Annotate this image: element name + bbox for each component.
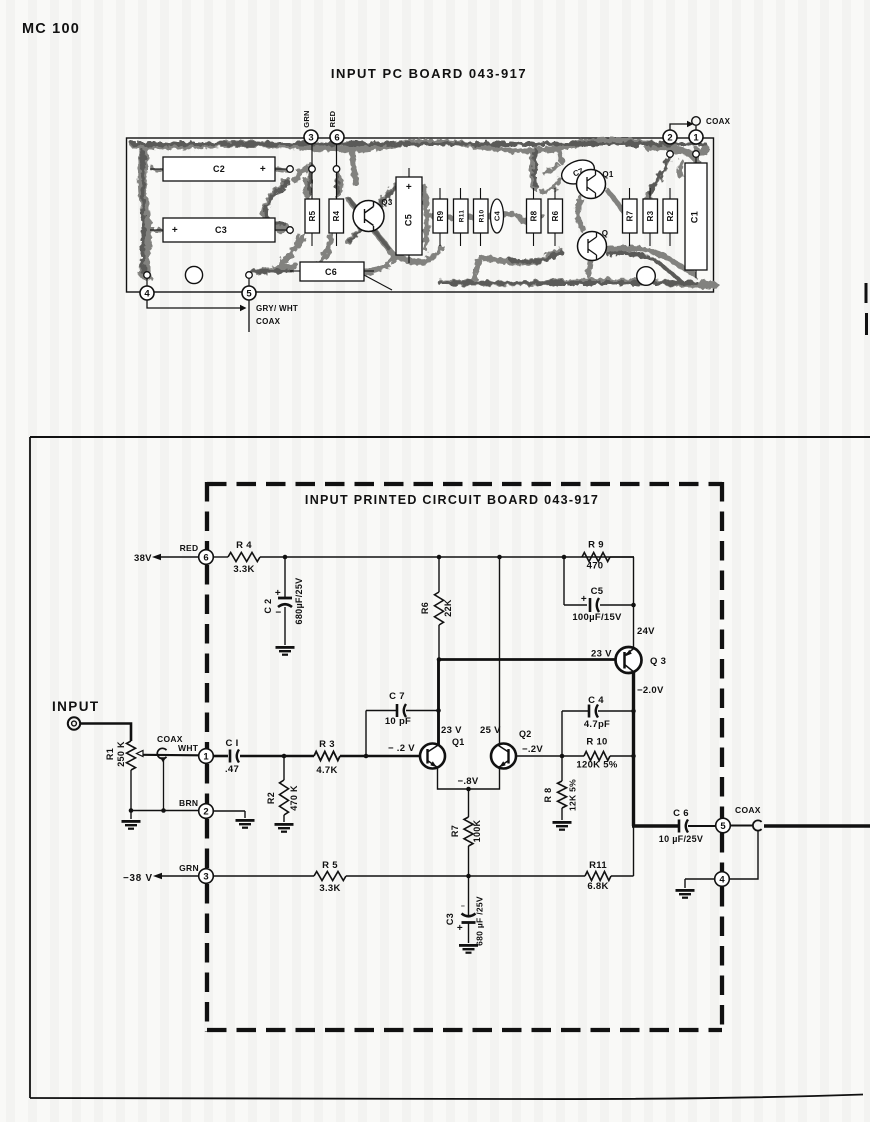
svg-text:4: 4 <box>144 288 150 299</box>
capacitor C7 (board) <box>558 156 598 189</box>
svg-text:−38 V: −38 V <box>123 873 153 884</box>
resistor R11 (board) <box>454 199 469 233</box>
resistor R11 6.8K <box>585 872 611 881</box>
svg-text:C6: C6 <box>325 267 337 277</box>
svg-text:+: + <box>275 588 281 599</box>
svg-text:GRY/ WHT: GRY/ WHT <box>256 304 298 313</box>
svg-text:10 µF/25V: 10 µF/25V <box>659 834 703 844</box>
svg-text:− .2 V: − .2 V <box>388 743 415 754</box>
wire terminal 4 to ground <box>685 878 715 880</box>
svg-text:−.2V: −.2V <box>522 744 543 755</box>
svg-text:WHT: WHT <box>178 743 199 753</box>
input jack <box>68 717 80 729</box>
clipped marks right edge <box>865 283 868 303</box>
resistor R3 4.7K <box>284 755 314 758</box>
svg-text:+: + <box>457 923 463 934</box>
svg-text:.47: .47 <box>225 764 239 775</box>
svg-text:COAX: COAX <box>706 117 731 126</box>
ground (R8) <box>553 821 572 831</box>
ground (C2) <box>276 646 295 656</box>
resistor R4 3.3K <box>214 556 229 558</box>
terminal 5 <box>716 818 731 833</box>
svg-text:R11: R11 <box>458 210 465 223</box>
ground (R2) <box>275 823 294 833</box>
svg-text:680 µF /25V: 680 µF /25V <box>475 896 485 946</box>
resistor R3 (board) <box>643 199 658 233</box>
svg-text:C4: C4 <box>493 210 502 221</box>
svg-text:38V: 38V <box>134 553 152 564</box>
svg-text:R8: R8 <box>529 210 538 221</box>
svg-text:R9: R9 <box>436 210 445 221</box>
capacitor C4 (board) <box>491 199 504 233</box>
svg-text:23 V: 23 V <box>441 725 462 736</box>
svg-text:GRN: GRN <box>302 110 311 128</box>
capacitor C4 4.7pF <box>561 711 563 756</box>
svg-text:+: + <box>172 225 178 236</box>
capacitor C5 100uF/15V <box>563 557 565 605</box>
resistor R2 470K <box>283 756 285 780</box>
resistor R9 470 <box>582 553 610 562</box>
svg-text:2: 2 <box>203 806 208 817</box>
terminal 1 <box>199 749 214 764</box>
svg-text:⁻: ⁻ <box>461 903 466 912</box>
coax connector (output) <box>753 820 762 830</box>
svg-text:24V: 24V <box>637 626 655 637</box>
wire wiper to terminal 1 <box>143 754 199 757</box>
svg-text:4: 4 <box>719 874 725 885</box>
svg-text:3: 3 <box>308 132 313 143</box>
terminal 3 <box>199 869 214 884</box>
resistor R8 12K 5% <box>561 756 563 781</box>
svg-text:R7: R7 <box>450 825 460 837</box>
svg-text:1: 1 <box>203 751 209 762</box>
wire terminal 2 to ground <box>214 810 246 812</box>
svg-text:3.3K: 3.3K <box>319 883 340 894</box>
transistor Q1 <box>420 744 445 769</box>
svg-text:25 V: 25 V <box>480 725 501 736</box>
svg-text:5: 5 <box>246 288 252 299</box>
svg-text:INPUT: INPUT <box>52 699 100 714</box>
terminal 1 (board) <box>689 130 703 144</box>
component leads (board) <box>150 157 696 290</box>
svg-text:R2: R2 <box>666 210 675 221</box>
svg-text:Q3: Q3 <box>381 198 393 207</box>
svg-text:RED: RED <box>180 543 199 553</box>
svg-text:+: + <box>260 164 266 175</box>
mounting hole left <box>185 266 202 283</box>
wire Q3 collector to output <box>632 671 635 826</box>
svg-text:R4: R4 <box>332 210 341 221</box>
capacitor C6 10uF/25V <box>679 820 688 833</box>
svg-text:R5: R5 <box>308 210 317 221</box>
wire from terminal 5 down <box>248 300 250 332</box>
svg-text:R7: R7 <box>625 210 634 221</box>
svg-text:C2: C2 <box>213 164 225 174</box>
svg-text:Q1: Q1 <box>602 170 614 179</box>
svg-text:C 2: C 2 <box>263 599 273 614</box>
transistor Q3 (board) <box>353 198 393 232</box>
svg-text:R 3: R 3 <box>319 739 335 750</box>
svg-text:Q1: Q1 <box>452 737 465 747</box>
node -38V arrow (GRN feed) <box>161 875 199 877</box>
wire Q2 base <box>516 755 562 757</box>
transistor Q2 (board) <box>578 229 609 261</box>
svg-text:6.8K: 6.8K <box>587 881 608 892</box>
capacitor C1 .47 <box>214 755 229 758</box>
wire Q1,Q2 emitters join <box>438 768 500 789</box>
resistor R6 22K <box>438 557 440 592</box>
svg-text:C 7: C 7 <box>389 691 405 702</box>
svg-text:GRN: GRN <box>179 863 199 873</box>
svg-text:MC 100: MC 100 <box>22 21 80 37</box>
transistor Q3 <box>616 647 642 673</box>
svg-text:100K: 100K <box>472 819 482 842</box>
terminal 5 (board) <box>248 278 250 286</box>
resistor R8 (board) <box>527 199 542 233</box>
resistor R5 (board) <box>305 199 320 233</box>
svg-text:R 10: R 10 <box>586 737 607 748</box>
terminal 4 <box>715 872 730 887</box>
wire from terminal 4 to gry/wht coax <box>147 300 240 308</box>
svg-text:C 4: C 4 <box>588 695 604 706</box>
svg-text:680µF/25V: 680µF/25V <box>294 578 304 625</box>
svg-text:2: 2 <box>667 132 672 143</box>
svg-text:C 6: C 6 <box>673 808 689 819</box>
svg-text:BRN: BRN <box>179 798 198 808</box>
resistor R6 (board) <box>548 199 563 233</box>
resistor R5 3.3K <box>214 875 315 877</box>
ground (terminal 2) <box>236 819 255 829</box>
resistor R7 (board) <box>623 199 638 233</box>
svg-text:C3: C3 <box>215 225 227 235</box>
svg-text:R3: R3 <box>646 210 655 221</box>
svg-text:R2: R2 <box>266 792 276 804</box>
capacitor C7 10pF <box>365 711 367 757</box>
svg-text:250 K: 250 K <box>116 741 126 767</box>
svg-text:INPUT PC BOARD 043-917: INPUT PC BOARD 043-917 <box>331 66 527 81</box>
wire output to edge <box>764 824 870 827</box>
transistor Q1 (board) <box>577 170 614 199</box>
svg-text:C I: C I <box>225 738 238 749</box>
wire Q2 collector <box>499 557 501 744</box>
R1 wiper arrow <box>137 751 144 757</box>
svg-text:COAX: COAX <box>735 805 761 815</box>
svg-text:−: − <box>275 608 281 619</box>
terminal 4 (board) <box>146 278 148 286</box>
svg-text:C5: C5 <box>591 586 604 597</box>
coax shield symbol (input) <box>157 748 166 758</box>
terminal 3 (board) <box>304 130 318 144</box>
ground (R1) <box>122 820 141 830</box>
svg-text:100µF/15V: 100µF/15V <box>572 612 622 623</box>
resistor R10 120K 5% <box>562 755 584 757</box>
svg-text:INPUT PRINTED CIRCUIT BOARD 04: INPUT PRINTED CIRCUIT BOARD 043-917 <box>305 493 599 507</box>
svg-text:Q: Q <box>602 229 609 238</box>
svg-text:120K 5%: 120K 5% <box>576 760 617 771</box>
svg-text:12K 5%: 12K 5% <box>568 779 578 811</box>
terminal 6 (board) <box>330 130 344 144</box>
terminal 2 <box>199 804 214 819</box>
svg-text:22K: 22K <box>443 599 453 617</box>
svg-text:R 8: R 8 <box>543 788 553 803</box>
svg-text:R 9: R 9 <box>588 540 604 551</box>
resistor R2 (board) <box>663 199 678 233</box>
svg-text:C5: C5 <box>404 214 414 226</box>
dashed PCB boundary box <box>207 482 722 1032</box>
svg-text:R 5: R 5 <box>322 860 338 871</box>
svg-text:3: 3 <box>203 871 208 882</box>
capacitor C2 (board) <box>163 157 275 181</box>
outer page border <box>30 436 870 438</box>
svg-text:3.3K: 3.3K <box>233 564 254 575</box>
wire R9 to Q3 collector <box>633 557 635 648</box>
solder pads <box>309 166 316 173</box>
node 38V arrow (RED feed) <box>160 556 199 558</box>
svg-text:R1: R1 <box>105 748 115 760</box>
ground (terminal 4) <box>676 889 695 899</box>
svg-text:C3: C3 <box>445 913 455 925</box>
svg-text:COAX: COAX <box>256 317 281 326</box>
svg-text:1: 1 <box>693 132 699 143</box>
svg-text:RED: RED <box>328 110 337 127</box>
terminal 2 (board) <box>663 130 677 144</box>
wire Q1 collector <box>437 659 440 745</box>
svg-text:23 V: 23 V <box>591 649 612 660</box>
svg-text:R 4: R 4 <box>236 540 252 551</box>
resistor R4 (board) <box>329 199 344 233</box>
svg-text:C1: C1 <box>690 211 700 223</box>
svg-text:5: 5 <box>720 821 726 832</box>
wire R1 bottom to terminal 2 <box>131 810 199 812</box>
svg-text:470 K: 470 K <box>289 785 299 811</box>
capacitor C2 680uF/25V <box>284 557 286 598</box>
svg-text:−2.0V: −2.0V <box>637 685 664 696</box>
svg-text:R10: R10 <box>478 210 485 223</box>
coax wire to terminals 1,2 (board) <box>670 124 687 130</box>
terminal 6 <box>199 550 214 565</box>
wire Q3 base <box>440 658 616 661</box>
svg-text:Q2: Q2 <box>519 729 532 739</box>
svg-text:+: + <box>406 182 412 193</box>
PCB board outline <box>127 138 714 292</box>
svg-text:4.7pF: 4.7pF <box>584 719 610 730</box>
transistor Q2 <box>491 744 516 769</box>
capacitor C3 (board) <box>163 218 275 242</box>
resistor R7 100K <box>468 789 470 817</box>
svg-text:4.7K: 4.7K <box>316 765 337 776</box>
resistor R9 (board) <box>433 199 448 233</box>
wire coax shield to ground bus <box>163 761 165 811</box>
svg-text:+: + <box>581 594 587 605</box>
svg-text:−.8V: −.8V <box>457 776 478 787</box>
svg-text:R6: R6 <box>420 602 430 614</box>
svg-text:R11: R11 <box>589 860 607 871</box>
svg-text:6: 6 <box>203 552 208 563</box>
svg-text:6: 6 <box>334 132 339 143</box>
capacitor C1 (board) <box>685 163 707 270</box>
PCB copper traces (stippled) <box>133 140 717 286</box>
capacitor C5 (board) <box>396 177 422 255</box>
capacitor C6 (board) <box>300 262 364 281</box>
wire top rail <box>285 556 634 558</box>
svg-text:470: 470 <box>587 561 604 572</box>
wire terminal 4 to coax shield <box>730 831 759 879</box>
wire input to R1 <box>81 724 132 742</box>
mounting hole right <box>637 267 656 286</box>
svg-text:10 pF: 10 pF <box>385 716 411 727</box>
svg-text:Q 3: Q 3 <box>650 656 666 667</box>
capacitor C3 680uF/25V <box>468 876 470 917</box>
wire R11 to output node <box>633 827 635 876</box>
ground (C3) <box>459 944 478 954</box>
potentiometer R1 250K <box>127 741 136 770</box>
resistor R10 (board) <box>474 199 489 233</box>
svg-text:R6: R6 <box>551 210 560 221</box>
